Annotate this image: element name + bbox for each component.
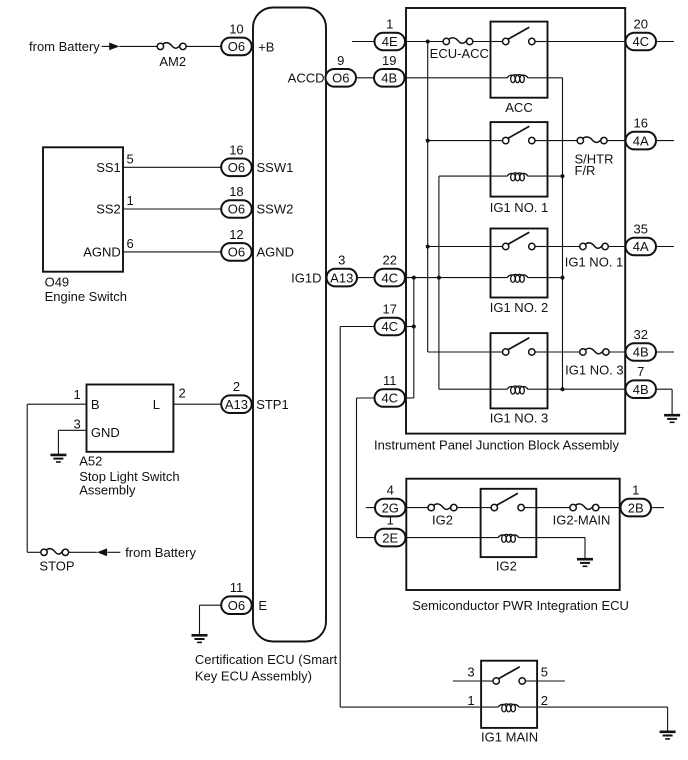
svg-text:4B: 4B [633, 382, 649, 397]
svg-text:1: 1 [73, 387, 80, 402]
svg-text:4C: 4C [632, 34, 649, 49]
svg-text:1: 1 [386, 17, 393, 32]
svg-text:4C: 4C [381, 319, 398, 334]
svg-text:Instrument Panel Junction Bloc: Instrument Panel Junction Block Assembly [374, 437, 619, 452]
svg-text:35: 35 [634, 222, 648, 237]
svg-text:O6: O6 [228, 598, 245, 613]
svg-text:IG2-MAIN: IG2-MAIN [553, 513, 611, 528]
svg-text:2B: 2B [628, 500, 644, 515]
svg-text:ACC: ACC [505, 100, 532, 115]
svg-text:5: 5 [127, 152, 134, 167]
svg-text:6: 6 [127, 236, 134, 251]
svg-text:22: 22 [383, 253, 397, 268]
svg-text:4E: 4E [382, 34, 398, 49]
svg-text:B: B [91, 397, 100, 412]
svg-text:O6: O6 [228, 39, 245, 54]
svg-text:10: 10 [229, 21, 243, 36]
svg-text:ECU-ACC: ECU-ACC [430, 46, 489, 61]
svg-text:SSW1: SSW1 [257, 160, 294, 175]
svg-text:Certification ECU (Smart: Certification ECU (Smart [195, 652, 338, 667]
svg-text:IG1 MAIN: IG1 MAIN [481, 730, 538, 745]
svg-text:4B: 4B [381, 71, 397, 86]
svg-text:1: 1 [632, 483, 639, 498]
svg-text:16: 16 [229, 142, 243, 157]
svg-text:SSW2: SSW2 [257, 202, 294, 217]
svg-text:32: 32 [634, 327, 648, 342]
svg-text:4: 4 [387, 483, 394, 498]
svg-text:O6: O6 [228, 160, 245, 175]
svg-text:2E: 2E [382, 530, 398, 545]
svg-text:E: E [258, 598, 267, 613]
svg-text:IG1 NO. 1: IG1 NO. 1 [490, 200, 549, 215]
svg-text:Semiconductor PWR Integration: Semiconductor PWR Integration ECU [412, 598, 629, 613]
svg-text:1: 1 [387, 513, 394, 528]
svg-text:+B: +B [258, 39, 274, 54]
svg-text:2: 2 [179, 385, 186, 400]
svg-text:O49: O49 [45, 275, 70, 290]
svg-text:from Battery: from Battery [125, 545, 196, 560]
svg-text:20: 20 [634, 17, 648, 32]
svg-text:12: 12 [229, 227, 243, 242]
svg-text:SS2: SS2 [96, 202, 121, 217]
svg-text:11: 11 [230, 580, 244, 595]
svg-text:O6: O6 [228, 245, 245, 260]
svg-text:IG1 NO. 2: IG1 NO. 2 [490, 300, 549, 315]
svg-text:Engine Switch: Engine Switch [45, 289, 127, 304]
svg-text:STOP: STOP [39, 558, 74, 573]
svg-text:A13: A13 [225, 397, 248, 412]
svg-text:3: 3 [73, 417, 80, 432]
svg-text:IG1 NO. 1: IG1 NO. 1 [565, 254, 624, 269]
svg-text:STP1: STP1 [256, 397, 289, 412]
svg-text:O6: O6 [332, 71, 349, 86]
svg-text:IG1 NO. 3: IG1 NO. 3 [490, 411, 549, 426]
svg-text:IG2: IG2 [432, 513, 453, 528]
svg-text:19: 19 [382, 53, 396, 68]
svg-text:IG2: IG2 [496, 559, 517, 574]
svg-text:O6: O6 [228, 202, 245, 217]
svg-text:SS1: SS1 [96, 160, 121, 175]
svg-text:18: 18 [229, 184, 243, 199]
svg-text:1: 1 [127, 193, 134, 208]
svg-text:from Battery: from Battery [29, 39, 100, 54]
svg-text:9: 9 [337, 53, 344, 68]
svg-text:ACCD: ACCD [288, 71, 325, 86]
svg-text:5: 5 [541, 664, 548, 679]
svg-text:IG1 NO. 3: IG1 NO. 3 [565, 363, 624, 378]
svg-text:Key ECU Assembly): Key ECU Assembly) [195, 669, 312, 684]
svg-text:11: 11 [383, 373, 397, 388]
svg-text:F/R: F/R [575, 163, 596, 178]
svg-text:IG1D: IG1D [291, 270, 321, 285]
svg-text:1: 1 [467, 693, 474, 708]
svg-text:16: 16 [634, 116, 648, 131]
svg-text:3: 3 [338, 253, 345, 268]
svg-text:4A: 4A [633, 239, 649, 254]
svg-text:Assembly: Assembly [79, 483, 136, 498]
svg-text:A13: A13 [330, 270, 353, 285]
svg-text:3: 3 [467, 664, 474, 679]
svg-text:2: 2 [233, 379, 240, 394]
svg-text:4C: 4C [381, 270, 398, 285]
svg-text:4B: 4B [633, 345, 649, 360]
svg-text:4A: 4A [633, 133, 649, 148]
svg-text:2: 2 [541, 693, 548, 708]
svg-text:7: 7 [637, 364, 644, 379]
svg-text:AGND: AGND [83, 245, 121, 260]
svg-text:AGND: AGND [257, 245, 295, 260]
svg-text:A52: A52 [79, 454, 102, 469]
svg-text:L: L [153, 397, 160, 412]
svg-text:GND: GND [91, 425, 120, 440]
svg-text:AM2: AM2 [159, 54, 186, 69]
svg-text:4C: 4C [381, 391, 398, 406]
svg-text:17: 17 [383, 302, 397, 317]
